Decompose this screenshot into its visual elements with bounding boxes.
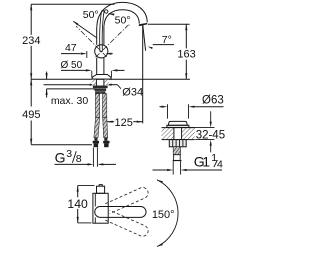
svg-text:Ø63: Ø63 <box>202 95 224 107</box>
svg-text:50°: 50° <box>83 9 99 21</box>
svg-text:234: 234 <box>22 35 40 47</box>
svg-text:163: 163 <box>177 49 195 61</box>
svg-text:125: 125 <box>115 117 133 129</box>
svg-text:32-45: 32-45 <box>196 129 225 141</box>
svg-text:140: 140 <box>67 197 88 211</box>
svg-text:1: 1 <box>202 154 210 170</box>
svg-text:150°: 150° <box>152 209 175 221</box>
svg-text:50°: 50° <box>115 15 131 27</box>
svg-text:8: 8 <box>76 153 82 165</box>
svg-text:3: 3 <box>66 148 72 160</box>
svg-text:47: 47 <box>65 42 77 54</box>
svg-text:G: G <box>55 149 66 165</box>
svg-text:Ø34: Ø34 <box>122 87 143 99</box>
svg-text:max. 30: max. 30 <box>51 95 89 107</box>
svg-text:Ø 50: Ø 50 <box>60 60 82 71</box>
svg-text:4: 4 <box>217 158 223 170</box>
svg-text:7°: 7° <box>162 34 172 46</box>
svg-text:495: 495 <box>22 109 40 121</box>
